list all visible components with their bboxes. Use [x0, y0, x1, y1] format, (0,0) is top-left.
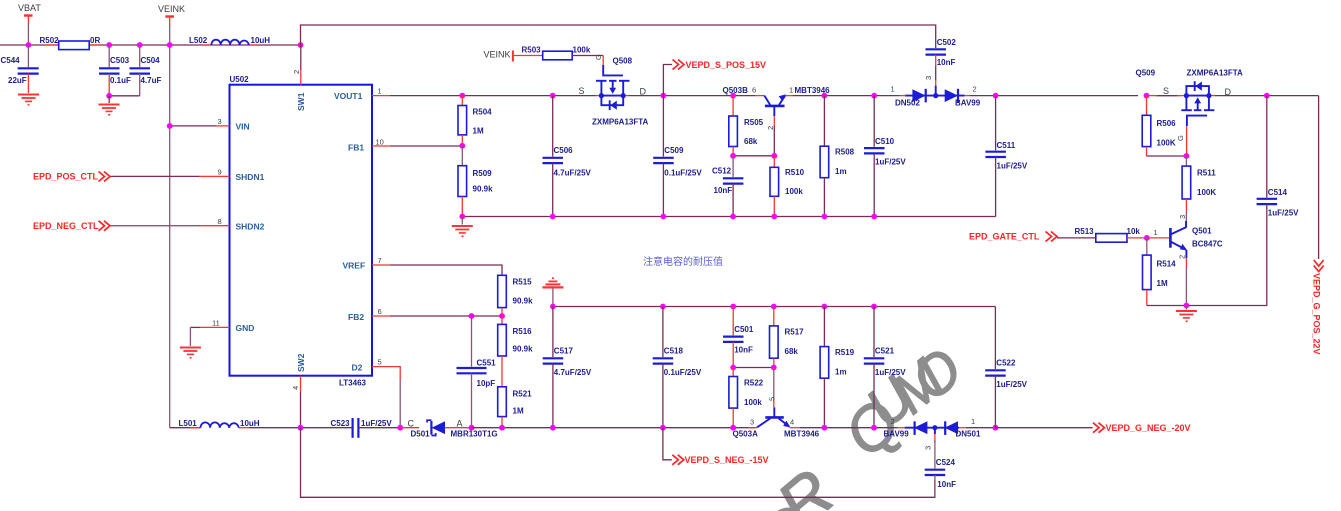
capacitor C518	[653, 307, 702, 428]
svg-text:SW1: SW1	[296, 92, 306, 111]
diode DN501	[945, 417, 996, 439]
wire right ground rail	[1147, 305, 1267, 307]
diode BAV99 top	[945, 85, 981, 108]
pin 9 SHDN1	[111, 168, 265, 183]
ground above C517	[542, 278, 563, 306]
junction C503 node	[106, 42, 112, 48]
svg-text:VEPD_S_NEG_-15V: VEPD_S_NEG_-15V	[685, 455, 769, 465]
junction C512 bottom	[730, 214, 736, 220]
node VEPD_G_NEG_-20V	[995, 423, 1190, 433]
resistor R522	[729, 368, 764, 428]
wire neg top rail	[553, 306, 996, 308]
transistor Q501 BC847C	[1147, 221, 1223, 306]
op-amp U1 converter IC U502 LT3463	[230, 85, 373, 376]
resistor R513	[1075, 227, 1147, 242]
resistor R510	[770, 156, 805, 217]
junction C509 / VEPD_S_POS node	[661, 93, 667, 99]
svg-text:4.7uF/25V: 4.7uF/25V	[554, 368, 592, 377]
svg-text:2: 2	[292, 70, 301, 74]
svg-text:C510: C510	[875, 137, 895, 146]
pin 5 D2	[352, 358, 391, 373]
resistor R517	[770, 307, 805, 368]
svg-text:10uH: 10uH	[251, 36, 271, 45]
svg-text:DN501: DN501	[956, 430, 981, 439]
svg-text:1M: 1M	[473, 127, 484, 136]
svg-text:C: C	[408, 419, 415, 429]
wire between diode pair	[905, 95, 964, 97]
svg-text:1: 1	[971, 417, 975, 426]
svg-text:BAV99: BAV99	[955, 99, 981, 108]
resistor R516	[498, 316, 533, 387]
svg-text:6: 6	[378, 307, 382, 316]
svg-text:C512: C512	[712, 167, 732, 176]
svg-text:7: 7	[378, 256, 382, 265]
svg-text:10nF: 10nF	[937, 480, 956, 489]
wire VBAT input rail	[0, 44, 301, 46]
junction C518 bottom	[660, 425, 666, 431]
ground at U502 GND pin	[180, 348, 201, 358]
junction Q509 S / R506 node	[1144, 93, 1150, 99]
svg-text:10uH: 10uH	[240, 419, 260, 428]
ground under C503	[99, 96, 120, 115]
resistor R515	[498, 275, 533, 316]
svg-text:10nF: 10nF	[714, 186, 733, 195]
svg-text:2: 2	[1178, 255, 1187, 259]
diode DN502	[891, 85, 926, 108]
power flag VEINK	[158, 4, 185, 26]
transistor Q508 ZXMP6A13FTA	[596, 65, 630, 110]
svg-text:100k: 100k	[785, 187, 803, 196]
junction C518 top	[660, 304, 666, 310]
svg-text:1: 1	[378, 87, 382, 96]
svg-text:2: 2	[973, 85, 977, 94]
wire VEINK vertical	[169, 26, 171, 428]
junction C506 top	[550, 93, 556, 99]
junction C506 bottom	[550, 214, 556, 220]
capacitor C544	[1, 45, 39, 93]
svg-text:Q501: Q501	[1192, 227, 1212, 236]
svg-text:8: 8	[218, 217, 222, 226]
svg-text:R522: R522	[744, 379, 764, 388]
capacitor C509	[653, 96, 702, 217]
svg-text:0.1uF/25V: 0.1uF/25V	[664, 169, 702, 178]
svg-text:3: 3	[1178, 215, 1187, 219]
svg-text:C517: C517	[554, 347, 574, 356]
svg-text:注意电容的耐压值: 注意电容的耐压值	[643, 255, 723, 268]
junction C521 bottom	[871, 425, 877, 431]
junction ground rail R509	[459, 214, 465, 220]
svg-text:R515: R515	[513, 278, 533, 287]
node VEPD_G_POS_22V	[1312, 96, 1324, 355]
svg-text:3: 3	[218, 117, 222, 126]
wire D2 down	[390, 367, 400, 380]
svg-text:5: 5	[378, 358, 382, 367]
svg-text:VEINK: VEINK	[158, 4, 185, 14]
svg-text:22uF: 22uF	[8, 76, 27, 85]
svg-text:10nF: 10nF	[937, 58, 956, 67]
svg-text:10pF: 10pF	[477, 379, 496, 388]
svg-text:1m: 1m	[835, 167, 847, 176]
svg-text:3: 3	[924, 446, 933, 450]
junction R505 top node	[730, 93, 736, 99]
svg-text:R508: R508	[835, 148, 855, 157]
svg-text:C514: C514	[1268, 188, 1288, 197]
wire FB2	[390, 315, 502, 317]
svg-text:L501: L501	[179, 419, 198, 428]
pin 8 SHDN2	[111, 217, 265, 232]
svg-text:Q509: Q509	[1136, 69, 1156, 78]
junction C517 bottom	[550, 425, 556, 431]
junction gate node	[1184, 153, 1190, 159]
svg-text:100k: 100k	[573, 46, 591, 55]
inductor L501	[170, 419, 260, 428]
pin 4 SW2	[291, 353, 306, 427]
svg-text:4.7uF: 4.7uF	[141, 76, 162, 85]
svg-text:C506: C506	[554, 146, 574, 155]
svg-text:90.9k: 90.9k	[513, 297, 534, 306]
transistor Q509 ZXMP6A13FTA	[1181, 81, 1214, 126]
junction R517 top	[771, 304, 777, 310]
svg-text:68k: 68k	[744, 137, 758, 146]
wire VREF to R515	[390, 265, 502, 275]
power flag VEINK at R503	[484, 50, 513, 62]
svg-text:C501: C501	[734, 325, 754, 334]
node VEPD_S_NEG_-15V	[663, 428, 769, 465]
svg-text:R519: R519	[835, 348, 855, 357]
svg-text:DN502: DN502	[895, 99, 920, 108]
capacitor C524	[924, 434, 957, 497]
svg-text:10nF: 10nF	[734, 346, 753, 355]
svg-text:Q503B: Q503B	[723, 86, 749, 95]
svg-text:11: 11	[212, 319, 220, 328]
junction C551 top	[469, 313, 475, 319]
svg-text:ZXMP6A13FTA: ZXMP6A13FTA	[592, 118, 649, 127]
svg-text:D: D	[1225, 87, 1232, 97]
resistor R509	[458, 146, 493, 217]
svg-text:10: 10	[376, 138, 384, 147]
svg-text:S: S	[1163, 86, 1169, 96]
capacitor C512	[712, 156, 743, 217]
svg-text:EPD_NEG_CTL: EPD_NEG_CTL	[33, 221, 99, 231]
svg-text:VEPD_G_POS_22V: VEPD_G_POS_22V	[1312, 273, 1322, 355]
svg-text:1: 1	[891, 85, 895, 94]
svg-text:100k: 100k	[744, 398, 762, 407]
wire neg bottom rail left	[472, 427, 756, 429]
svg-text:SW2: SW2	[296, 353, 306, 372]
capacitor C501	[723, 307, 754, 368]
capacitor C551	[457, 316, 497, 428]
svg-text:1uF/25V: 1uF/25V	[1268, 209, 1299, 218]
ground under Q501	[1176, 306, 1197, 322]
svg-text:VREF: VREF	[343, 261, 366, 271]
resistor R506	[1142, 96, 1176, 156]
junction C514 top	[1264, 93, 1270, 99]
svg-text:VOUT1: VOUT1	[334, 91, 363, 101]
junction C509 bottom	[661, 214, 667, 220]
junction R521 bottom	[499, 425, 505, 431]
capacitor C521	[864, 307, 906, 428]
svg-text:1M: 1M	[1157, 279, 1168, 288]
svg-text:C523: C523	[331, 419, 351, 428]
junction R508 top node	[822, 93, 828, 99]
svg-text:D: D	[640, 87, 647, 97]
svg-text:Q508: Q508	[613, 57, 633, 66]
svg-text:VEPD_S_POS_15V: VEPD_S_POS_15V	[686, 60, 767, 70]
svg-text:MBT3946: MBT3946	[784, 430, 820, 439]
svg-text:VEINK: VEINK	[484, 50, 511, 60]
power flag VBAT	[18, 3, 41, 45]
svg-text:2: 2	[766, 126, 775, 130]
svg-text:LT3463: LT3463	[339, 379, 367, 388]
resistor R502	[40, 36, 102, 50]
capacitor C503	[99, 45, 131, 96]
svg-text:C522: C522	[996, 359, 1016, 368]
svg-text:G: G	[594, 54, 603, 60]
svg-text:L502: L502	[189, 36, 208, 45]
junction R515/R516 node	[499, 313, 505, 319]
svg-text:MBR130T1G: MBR130T1G	[451, 430, 498, 439]
junction Q501 base node	[1144, 235, 1150, 241]
transistor Q503B MBT3946	[723, 86, 831, 156]
svg-text:C504: C504	[141, 56, 161, 65]
ground under C544	[18, 95, 39, 105]
svg-text:9: 9	[218, 168, 222, 177]
svg-text:C502: C502	[937, 38, 957, 47]
resistor R514	[1143, 238, 1177, 306]
wire FB1 to divider	[390, 145, 462, 147]
capacitor C506	[543, 96, 592, 217]
svg-text:GND: GND	[236, 323, 255, 333]
svg-text:3: 3	[750, 418, 754, 427]
capacitor C523	[331, 418, 401, 438]
svg-text:68k: 68k	[785, 347, 799, 356]
junction Q501 emitter ground	[1184, 303, 1190, 309]
svg-text:ZXMP6A13FTA: ZXMP6A13FTA	[1187, 69, 1244, 78]
svg-text:EPD_GATE_CTL: EPD_GATE_CTL	[969, 232, 1040, 242]
junction FB1 node	[459, 143, 465, 149]
svg-text:1uF/25V: 1uF/25V	[361, 419, 392, 428]
resistor R511	[1178, 156, 1216, 227]
svg-text:100K: 100K	[1157, 139, 1176, 148]
capacitor C504	[130, 45, 162, 96]
svg-text:FB1: FB1	[348, 143, 364, 153]
transistor Q503A MBT3946	[733, 368, 820, 439]
svg-text:FB2: FB2	[348, 312, 364, 322]
svg-text:1: 1	[789, 86, 793, 95]
junction R519 bottom	[822, 425, 828, 431]
svg-text:R511: R511	[1197, 169, 1216, 178]
svg-text:U502: U502	[230, 75, 250, 84]
svg-text:BC847C: BC847C	[1192, 240, 1223, 249]
svg-text:SHDN2: SHDN2	[236, 222, 265, 232]
junction R522 bottom	[730, 425, 736, 431]
svg-text:R502: R502	[40, 36, 60, 45]
junction C551 bottom	[469, 425, 475, 431]
resistor R504	[458, 96, 492, 146]
svg-text:1uF/25V: 1uF/25V	[996, 380, 1027, 389]
svg-text:BAV99: BAV99	[884, 430, 910, 439]
svg-text:C544: C544	[1, 56, 21, 65]
pin 1 VOUT1	[334, 87, 390, 102]
wire L501 to C523	[249, 427, 353, 429]
ground under R509	[452, 217, 473, 237]
svg-text:1uF/25V: 1uF/25V	[875, 158, 906, 167]
resistor R521	[498, 387, 532, 428]
pin 7 VREF	[343, 256, 391, 271]
svg-text:D501: D501	[411, 430, 431, 439]
wire VOUT1 rail	[390, 95, 596, 97]
svg-text:VEPD_G_NEG_-20V: VEPD_G_NEG_-20V	[1106, 423, 1191, 433]
svg-text:3: 3	[924, 76, 933, 80]
svg-text:R517: R517	[785, 328, 805, 337]
wire C501 to R517 bottom node	[733, 367, 774, 369]
wire SW2 loop down	[301, 428, 935, 498]
svg-text:C509: C509	[664, 146, 684, 155]
svg-text:C551: C551	[477, 359, 497, 368]
svg-text:1m: 1m	[835, 368, 847, 377]
svg-text:4: 4	[790, 418, 794, 427]
junction R505/C512 node	[730, 153, 736, 159]
capacitor C514	[1257, 96, 1300, 306]
svg-text:R516: R516	[513, 327, 533, 336]
wire R506 bottom to gate node	[1147, 155, 1187, 157]
capacitor C502	[924, 38, 956, 86]
junction VIN node on VEINK line	[167, 123, 173, 129]
svg-text:90.9k: 90.9k	[473, 185, 494, 194]
wire between bottom diode pair	[905, 427, 959, 429]
node EPD_NEG_CTL	[33, 221, 110, 231]
svg-text:C518: C518	[664, 347, 684, 356]
wire C504 bottom to C503 bottom	[109, 95, 140, 97]
junction Q503A base top	[771, 365, 777, 371]
svg-text:R521: R521	[513, 390, 533, 399]
junction R504 node	[459, 93, 465, 99]
svg-text:0R: 0R	[90, 36, 100, 45]
svg-text:G: G	[1176, 135, 1185, 141]
junction VEINK node	[167, 42, 173, 48]
svg-text:R506: R506	[1157, 119, 1177, 128]
junction C517 top	[550, 304, 556, 310]
wire gate lead down	[1186, 126, 1188, 156]
svg-text:1uF/25V: 1uF/25V	[875, 368, 906, 377]
resistor R508	[820, 96, 855, 217]
pin 2 SW1	[292, 45, 306, 111]
junction R510 bottom	[771, 214, 777, 220]
junction R522 top	[730, 365, 736, 371]
wire SW1 to C502 top rail	[301, 25, 936, 48]
svg-text:C503: C503	[110, 56, 130, 65]
svg-text:R510: R510	[785, 168, 805, 177]
junction SW2 bottom node	[298, 425, 304, 431]
svg-text:VBAT: VBAT	[18, 3, 41, 13]
junction C504 node	[137, 42, 143, 48]
svg-text:0.1uF/25V: 0.1uF/25V	[664, 368, 702, 377]
svg-text:SHDN1: SHDN1	[236, 172, 265, 182]
junction VBAT node	[26, 42, 32, 48]
svg-text:10k: 10k	[1127, 227, 1141, 236]
svg-text:R509: R509	[473, 169, 493, 178]
svg-text:100K: 100K	[1197, 188, 1216, 197]
svg-text:D2: D2	[352, 363, 363, 373]
junction C511 top node	[993, 93, 999, 99]
svg-text:R504: R504	[473, 108, 493, 117]
node EPD_POS_CTL	[33, 172, 110, 182]
svg-text:2: 2	[891, 417, 895, 426]
svg-text:Q503A: Q503A	[733, 430, 759, 439]
capacitor C510	[864, 96, 906, 217]
junction D2/C523 node	[397, 425, 403, 431]
svg-text:90.9k: 90.9k	[513, 345, 534, 354]
svg-text:C511: C511	[997, 141, 1016, 150]
diode BAV99 bottom	[884, 417, 928, 439]
pin 10 FB1	[348, 138, 390, 153]
diode D501 MBR130T1G	[400, 419, 497, 439]
svg-text:1: 1	[1154, 228, 1158, 237]
junction SW1 top node	[298, 42, 304, 48]
junction C522 bottom node	[993, 425, 999, 431]
wire R505 bottom to base node	[733, 155, 774, 157]
svg-text:5: 5	[768, 397, 777, 401]
svg-text:C524: C524	[936, 458, 956, 467]
junction C510 bottom	[871, 214, 877, 220]
junction R508 bottom	[822, 214, 828, 220]
resistor R519	[820, 307, 855, 428]
svg-text:4: 4	[291, 386, 300, 390]
capacitor C522	[985, 307, 1027, 428]
junction C501 top	[730, 304, 736, 310]
svg-text:R514: R514	[1157, 260, 1177, 269]
wire neg bottom rail mid	[800, 427, 898, 429]
wire positive section ground rail	[462, 216, 995, 218]
svg-text:R513: R513	[1075, 227, 1095, 236]
pin 11 GND	[190, 319, 254, 347]
pin 3 VIN	[170, 117, 250, 132]
svg-text:A: A	[457, 419, 463, 429]
junction R519 top	[822, 304, 828, 310]
pin 6 FB2	[348, 307, 390, 322]
svg-text:6: 6	[752, 86, 756, 95]
inductor L502	[189, 36, 270, 45]
svg-text:0.1uF: 0.1uF	[110, 76, 131, 85]
svg-text:VIN: VIN	[236, 122, 250, 132]
resistor R505	[729, 96, 764, 157]
svg-text:C521: C521	[875, 347, 895, 356]
svg-text:R503: R503	[522, 46, 542, 55]
svg-text:4.7uF/25V: 4.7uF/25V	[554, 169, 592, 178]
node EPD_GATE_CTL	[969, 232, 1096, 242]
resistor R503	[514, 46, 603, 67]
svg-text:R505: R505	[744, 118, 764, 127]
junction base/R510 node	[771, 153, 777, 159]
watermark	[698, 336, 973, 511]
junction bottom diode center tap	[932, 425, 937, 430]
junction C510 top node	[871, 93, 877, 99]
svg-text:1M: 1M	[513, 407, 524, 416]
node VEPD_S_POS_15V	[663, 60, 766, 96]
junction C503/C504 ground node	[106, 93, 112, 99]
svg-text:1uF/25V: 1uF/25V	[997, 162, 1028, 171]
capacitor C517	[543, 307, 592, 428]
svg-text:EPD_POS_CTL: EPD_POS_CTL	[33, 172, 99, 182]
junction diode center tap	[933, 93, 938, 98]
svg-text:S: S	[579, 86, 585, 96]
junction C521 top	[871, 304, 877, 310]
capacitor C511	[985, 96, 1027, 217]
